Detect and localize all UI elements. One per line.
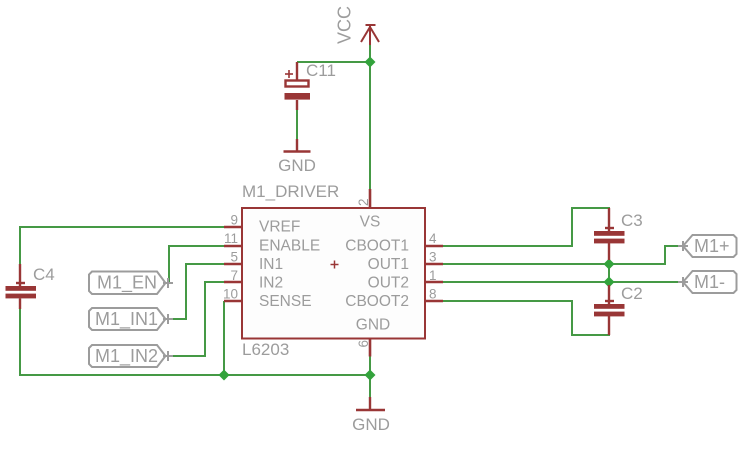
svg-text:9: 9 — [230, 213, 238, 228]
svg-text:M1_DRIVER: M1_DRIVER — [242, 182, 339, 201]
svg-text:GND: GND — [352, 415, 390, 434]
svg-text:7: 7 — [230, 268, 238, 283]
svg-text:1: 1 — [429, 268, 437, 283]
svg-text:C11: C11 — [306, 61, 336, 80]
svg-text:C3: C3 — [621, 211, 643, 230]
svg-text:C4: C4 — [33, 265, 55, 284]
svg-text:SENSE: SENSE — [259, 293, 312, 310]
svg-text:4: 4 — [429, 231, 437, 246]
svg-text:M1_IN2: M1_IN2 — [95, 346, 158, 367]
svg-text:VS: VS — [360, 214, 381, 231]
svg-text:C2: C2 — [621, 284, 643, 303]
svg-text:11: 11 — [224, 231, 238, 246]
svg-text:5: 5 — [230, 250, 238, 265]
svg-text:8: 8 — [429, 287, 437, 302]
svg-text:2: 2 — [356, 198, 371, 206]
svg-text:M1_EN: M1_EN — [97, 273, 157, 294]
svg-text:VCC: VCC — [335, 6, 355, 44]
svg-text:M1_IN1: M1_IN1 — [95, 309, 158, 330]
svg-text:ENABLE: ENABLE — [259, 238, 320, 255]
svg-text:6: 6 — [356, 340, 371, 348]
svg-text:L6203: L6203 — [242, 340, 289, 359]
svg-text:OUT1: OUT1 — [368, 256, 409, 273]
svg-text:OUT2: OUT2 — [368, 275, 409, 292]
svg-text:VREF: VREF — [259, 219, 300, 236]
svg-text:IN1: IN1 — [259, 256, 283, 273]
svg-text:CBOOT2: CBOOT2 — [345, 293, 409, 310]
svg-text:CBOOT1: CBOOT1 — [345, 238, 409, 255]
svg-text:GND: GND — [278, 156, 316, 175]
svg-text:3: 3 — [429, 250, 437, 265]
svg-text:10: 10 — [223, 287, 238, 302]
svg-text:IN2: IN2 — [259, 275, 283, 292]
svg-text:M1-: M1- — [694, 272, 725, 292]
svg-text:GND: GND — [356, 317, 390, 334]
svg-text:M1+: M1+ — [694, 236, 730, 256]
